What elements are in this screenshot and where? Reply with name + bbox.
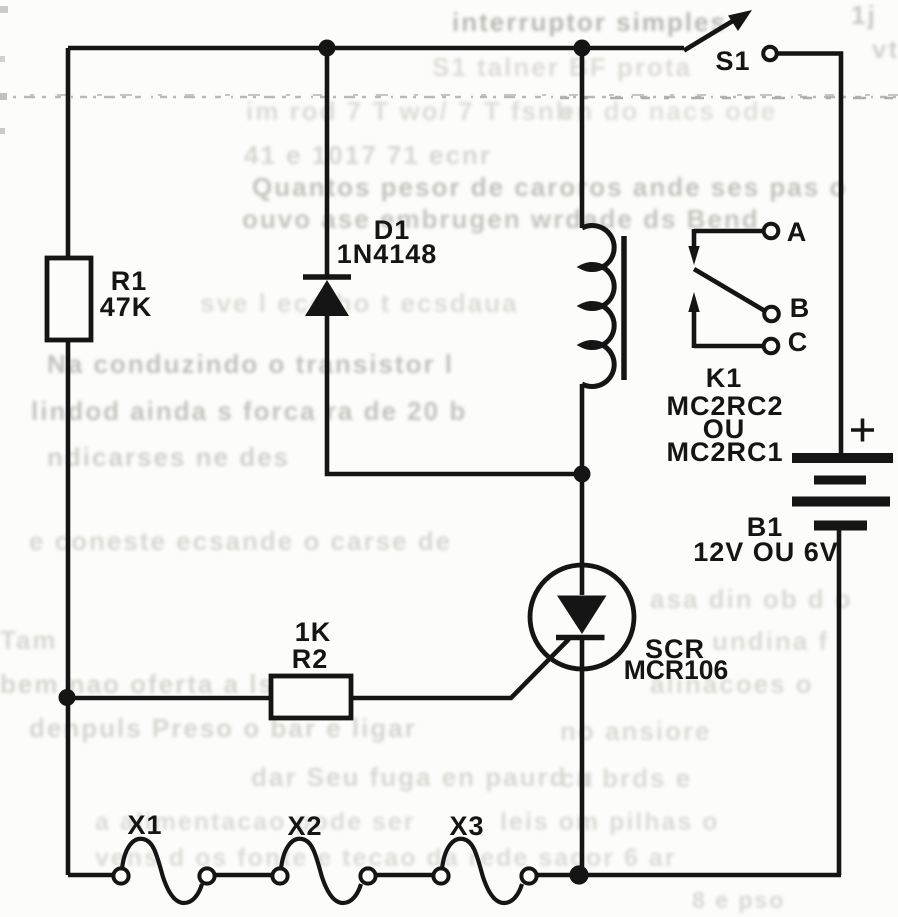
- svg-text:interruptor simples: interruptor simples: [452, 7, 727, 37]
- svg-text:Tam: Tam: [0, 625, 58, 655]
- svg-text:Quantos pesor de caroros ande: Quantos pesor de caroros ande ses pas o: [252, 172, 847, 202]
- svg-text:im rod 7 T wo/ 7 T fsnb: im rod 7 T wo/ 7 T fsnb: [246, 96, 574, 126]
- svg-text:X1: X1: [127, 810, 162, 840]
- svg-text:X3: X3: [449, 811, 484, 841]
- svg-text:leis om pilhas o: leis om pilhas o: [500, 808, 720, 836]
- svg-text:asa din ob d o: asa din ob d o: [650, 584, 853, 614]
- svg-text:lindod ainda s forca ra de 20: lindod ainda s forca ra de 20 b: [31, 396, 467, 426]
- svg-text:undina f: undina f: [712, 626, 829, 656]
- svg-text:dar Seu fuga en paurd u: dar Seu fuga en paurd u: [251, 762, 595, 792]
- svg-text:X2: X2: [287, 811, 322, 841]
- svg-text:S1: S1: [715, 46, 750, 76]
- svg-text:K1: K1: [706, 363, 743, 393]
- svg-text:8 e pso: 8 e pso: [692, 887, 785, 913]
- svg-text:e coneste ecsande o carse de: e coneste ecsande o carse de: [29, 526, 452, 556]
- svg-text:A: A: [787, 217, 808, 247]
- svg-text:1N4148: 1N4148: [337, 239, 438, 269]
- svg-text:S1 talner BF prota: S1 talner BF prota: [432, 52, 692, 82]
- svg-text:vt: vt: [872, 34, 898, 64]
- svg-text:1K: 1K: [295, 617, 332, 647]
- svg-text:en do nacs ode: en do nacs ode: [560, 96, 777, 126]
- svg-text:47K: 47K: [100, 292, 153, 322]
- svg-text:Na conduzindo o transistor l: Na conduzindo o transistor l: [47, 349, 454, 379]
- svg-text:41 e 1017 71 ecnr: 41 e 1017 71 ecnr: [244, 140, 492, 170]
- svg-text:MCR106: MCR106: [624, 655, 729, 685]
- svg-text:C: C: [788, 327, 809, 357]
- svg-text:12V OU 6V: 12V OU 6V: [693, 537, 839, 567]
- svg-text:bem nao oferta a ls: bem nao oferta a ls: [0, 669, 275, 699]
- svg-text:B: B: [790, 293, 811, 323]
- svg-text:ndicarses ne des: ndicarses ne des: [47, 442, 290, 472]
- svg-text:1j: 1j: [851, 0, 877, 30]
- svg-text:MC2RC1: MC2RC1: [666, 437, 783, 467]
- svg-text:vens d os fonte e tecao da red: vens d os fonte e tecao da rede sacor 6 …: [95, 844, 676, 872]
- svg-text:sve l ece ho t ecsdaua: sve l ece ho t ecsdaua: [200, 288, 519, 318]
- svg-text:denpuls Preso o bar e ligar: denpuls Preso o bar e ligar: [29, 713, 417, 743]
- svg-text:ouvo ase embrugen wrdade ds Be: ouvo ase embrugen wrdade ds Bend: [242, 204, 760, 234]
- svg-text:R2: R2: [292, 644, 329, 674]
